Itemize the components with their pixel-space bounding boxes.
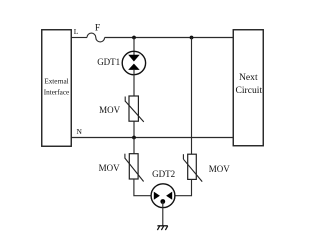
svg-text:MOV: MOV: [99, 105, 121, 115]
wire from GDT1 to MOV1: [133, 70, 135, 96]
svg-text:F: F: [95, 24, 100, 34]
svg-text:Next: Next: [239, 72, 258, 83]
node junction on L at GDT1 branch: [132, 36, 136, 40]
wire from L node down to MOV3 (crosses N): [191, 38, 193, 155]
varistor MOV1: [125, 96, 144, 122]
ground: [157, 226, 167, 230]
wire from MOV3 to GDT2 right terminal: [175, 179, 192, 195]
wire L from fuse to next circuit: [105, 37, 234, 39]
node junction on N at MOV2 branch: [132, 136, 136, 140]
varistor MOV3: [183, 154, 202, 181]
svg-text:MOV: MOV: [209, 164, 231, 174]
svg-text:GDT2: GDT2: [152, 169, 175, 179]
label MOV (lower right): [209, 164, 231, 174]
svg-text:MOV: MOV: [99, 163, 121, 173]
fuse F: [87, 24, 105, 42]
wire from MOV2 to GDT2 left terminal: [134, 179, 151, 196]
gas discharge tube GDT2 (3-electrode): [151, 184, 175, 208]
external interface box: [42, 30, 72, 147]
gas discharge tube GDT1: [122, 51, 145, 74]
node junction on L at right MOV branch: [190, 36, 194, 40]
label GDT2: [152, 169, 175, 179]
label L: [74, 27, 79, 36]
svg-text:GDT1: GDT1: [97, 57, 120, 67]
svg-text:Circuit: Circuit: [235, 85, 262, 96]
svg-text:Interface: Interface: [44, 89, 70, 97]
wire from MOV1 to N: [133, 121, 135, 137]
wire from L node into GDT1: [133, 38, 135, 56]
svg-text:External: External: [44, 78, 68, 86]
label MOV (lower left): [99, 163, 121, 173]
wire L from external interface to fuse: [72, 37, 88, 39]
svg-text:L: L: [74, 27, 79, 36]
svg-text:N: N: [77, 127, 83, 136]
wire N: [72, 137, 234, 139]
varistor MOV2: [125, 154, 144, 182]
wire from GDT2 electrode to ground: [162, 202, 164, 226]
label N: [77, 127, 83, 136]
label GDT1: [97, 57, 120, 67]
next circuit box: [233, 30, 263, 146]
label MOV (upper): [99, 105, 121, 115]
wire from N node to MOV2: [133, 138, 135, 154]
